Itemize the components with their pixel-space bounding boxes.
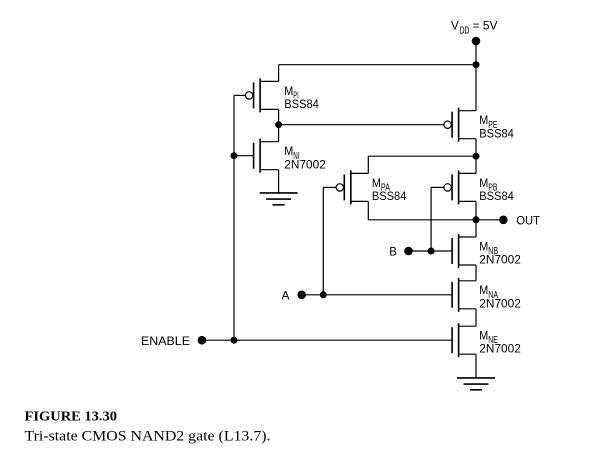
svg-text:OUT: OUT: [516, 213, 540, 227]
wire M_PB source drop: [475, 201, 477, 219]
node M_NI gate tap: [231, 152, 238, 159]
wire OUT rail: [368, 219, 476, 221]
svg-text:M: M: [372, 176, 381, 190]
node A tap: [320, 291, 327, 298]
node X (PMOS common): [473, 153, 480, 160]
wire B input: [409, 250, 453, 252]
wire M_NA source to M_NE drain: [475, 309, 477, 326]
node B tap: [428, 248, 435, 255]
svg-text:A: A: [282, 288, 291, 302]
svg-text:= 5V: = 5V: [473, 19, 499, 33]
svg-text:FIGURE 13.30: FIGURE 13.30: [25, 409, 118, 424]
svg-text:2N7002: 2N7002: [479, 296, 521, 310]
node OUT junction: [473, 216, 480, 223]
wire M_PI source drop: [278, 109, 280, 124]
wire M_PE drain riser: [475, 65, 477, 111]
svg-text:M: M: [479, 113, 488, 127]
wire M_NB drain drop: [475, 220, 477, 237]
svg-text:M: M: [479, 328, 488, 342]
transistor M_NE: [452, 323, 476, 357]
wire VDD stem: [475, 41, 477, 65]
transistor M_NA: [452, 278, 476, 312]
svg-text:ENABLE: ENABLE: [141, 334, 190, 348]
node B terminal: [404, 247, 413, 256]
wire M_PB drain drop: [475, 156, 477, 173]
wire M_PA gate lead: [323, 186, 336, 188]
node A terminal: [297, 291, 306, 300]
svg-text:2N7002: 2N7002: [479, 253, 521, 267]
wire M_PA drain riser: [367, 156, 369, 173]
ground (M_NI source): [260, 193, 298, 205]
wire M_NI drain riser: [278, 125, 280, 142]
ground (M_NE source): [457, 378, 495, 390]
wire ENABLE input: [202, 339, 452, 341]
wire B riser to M_PB gate: [430, 187, 432, 251]
wire ENABLE gate bus vertical: [233, 95, 235, 340]
wire M_PE source drop: [475, 139, 477, 157]
svg-text:M: M: [284, 144, 293, 158]
svg-text:M: M: [479, 176, 488, 190]
node VDD terminal: [472, 37, 481, 46]
transistor M_PB: [444, 170, 476, 204]
wire M_NE source to ground: [475, 354, 477, 378]
transistor M_NB: [452, 234, 476, 268]
wire M_NI source to ground: [278, 170, 280, 193]
wire node X rail: [368, 155, 476, 157]
wire M_NI gate lead: [234, 155, 254, 157]
svg-text:2N7002: 2N7002: [479, 342, 521, 356]
svg-text:BSS84: BSS84: [479, 189, 514, 203]
wire M_PI gate lead: [234, 94, 245, 96]
svg-text:2N7002: 2N7002: [284, 157, 326, 171]
wire VDD rail: [279, 64, 476, 66]
wire M_PA source drop: [367, 201, 369, 219]
wire M_NB source to M_NA drain: [475, 265, 477, 281]
svg-text:M: M: [479, 283, 488, 297]
node OUT terminal: [499, 216, 508, 225]
wire M_PB gate lead: [431, 186, 444, 188]
node ENABLE tap: [231, 337, 238, 344]
transistor M_PI: [245, 78, 278, 112]
svg-text:M: M: [284, 84, 293, 98]
wire M_PI drain riser: [278, 65, 280, 82]
wire A riser to M_PA gate: [322, 187, 324, 294]
wire inverter output to M_PE gate: [279, 124, 444, 126]
svg-text:Tri-state CMOS NAND2 gate (L13: Tri-state CMOS NAND2 gate (L13.7).: [25, 429, 271, 445]
transistor M_NI: [254, 139, 279, 173]
node inverter output: [275, 121, 282, 128]
wire A input: [302, 294, 452, 296]
node VDD junction: [473, 61, 480, 68]
wire OUT stub: [476, 219, 503, 221]
svg-text:M: M: [479, 239, 488, 253]
svg-text:BSS84: BSS84: [372, 189, 407, 203]
svg-text:BSS84: BSS84: [479, 126, 514, 140]
transistor M_PA: [336, 170, 368, 204]
svg-text:V: V: [451, 19, 460, 33]
transistor M_PE: [444, 108, 476, 142]
svg-text:B: B: [389, 245, 397, 259]
node ENABLE terminal: [198, 336, 207, 345]
svg-text:BSS84: BSS84: [284, 97, 319, 111]
svg-text:DD: DD: [460, 25, 470, 36]
